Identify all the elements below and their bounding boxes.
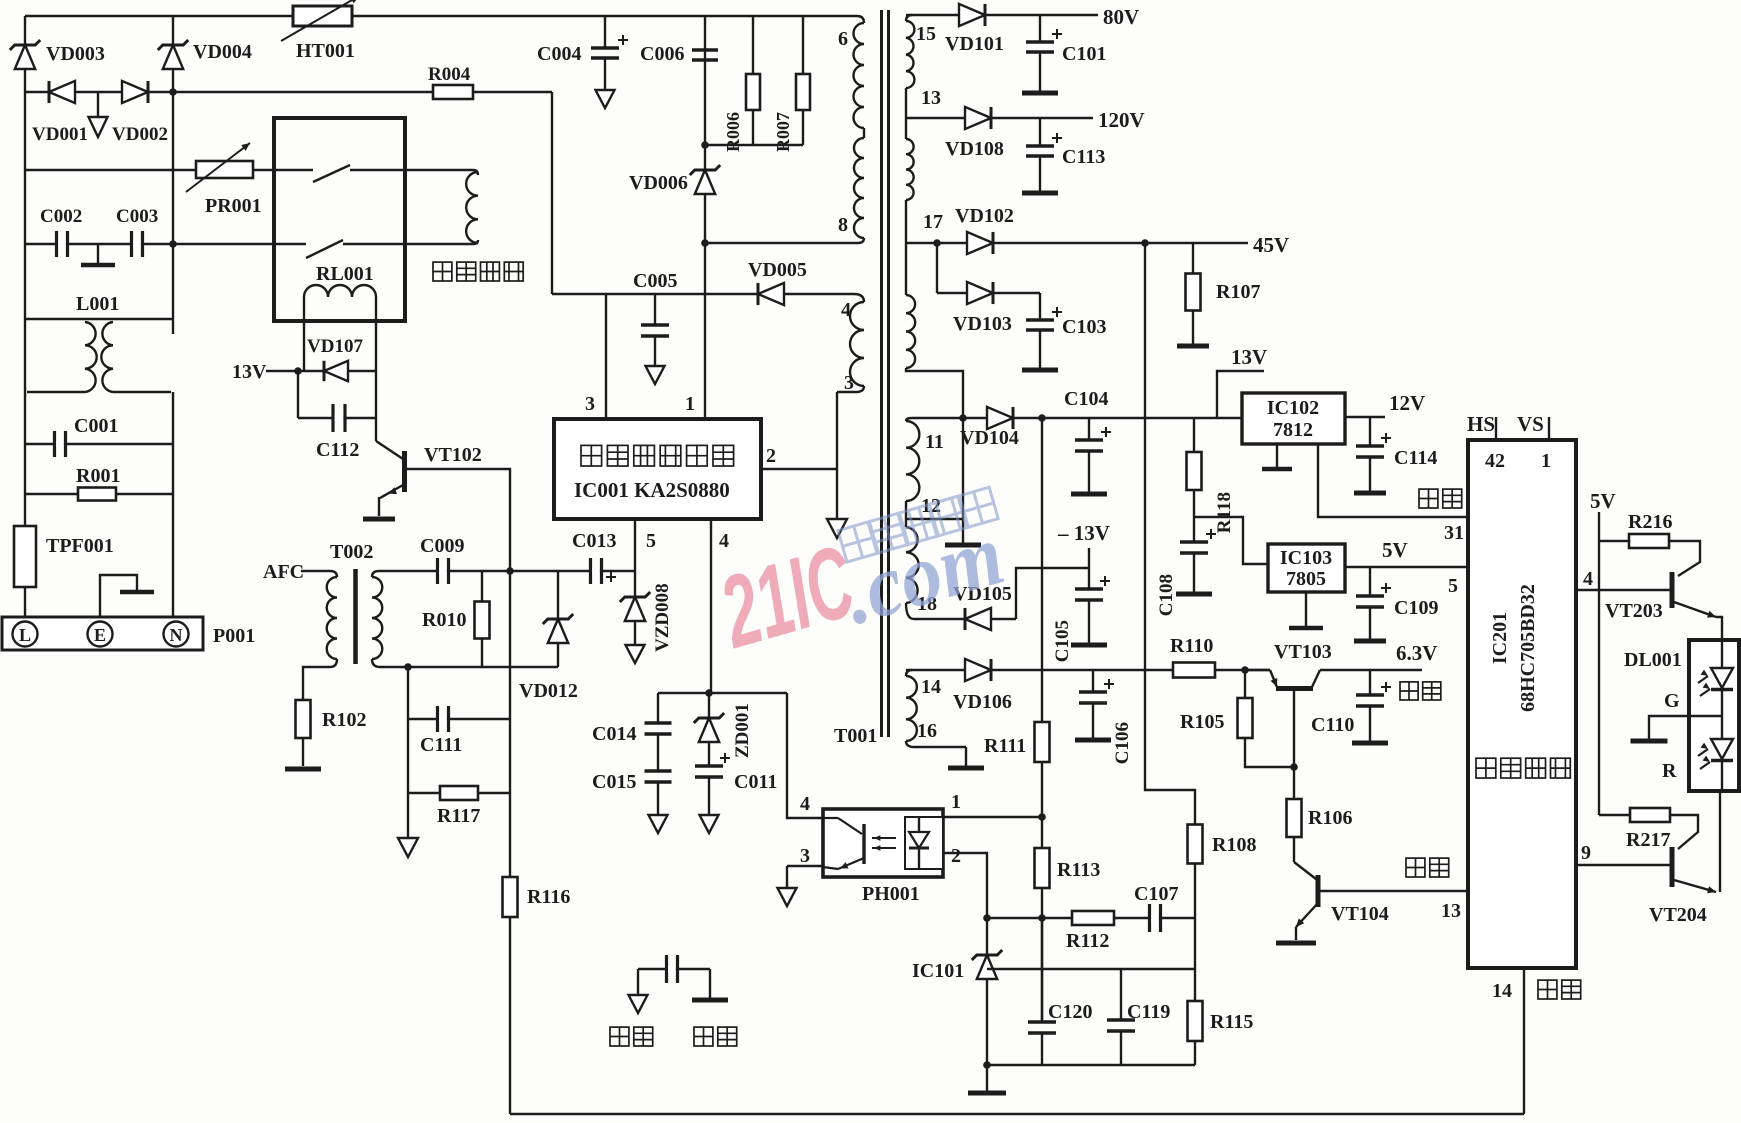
capacitor C014 [592, 693, 672, 745]
capacitor C113 [1022, 118, 1105, 193]
T001 sec 12 tap gnd [906, 418, 981, 545]
svg-text:VD108: VD108 [945, 138, 1004, 160]
pin 4 stub [711, 519, 729, 693]
svg-text:ZD001: ZD001 [732, 703, 753, 758]
svg-text:17: 17 [923, 211, 943, 233]
wire VD103 branch [936, 243, 938, 293]
label filament [1400, 682, 1441, 700]
svg-text:C104: C104 [1064, 388, 1108, 410]
svg-text:VT103: VT103 [1274, 641, 1332, 663]
wire VT102 base [406, 469, 510, 570]
svg-text:12V: 12V [1389, 391, 1425, 415]
wire filament rail [906, 669, 1270, 671]
IC201 pin5 label [1448, 575, 1458, 597]
pin2 wire PH001 [943, 845, 987, 918]
svg-text:VD006: VD006 [629, 172, 688, 194]
wire second rail [172, 16, 174, 319]
wire right rail lower [172, 319, 174, 619]
thermistor HT001 [281, 0, 359, 62]
svg-text:VD005: VD005 [748, 259, 807, 281]
relay RL001 box [274, 118, 405, 321]
svg-text:– 13V: – 13V [1057, 521, 1110, 545]
capacitor C001 [25, 415, 173, 457]
svg-text:R107: R107 [1216, 281, 1260, 303]
T001 primary lower [837, 294, 864, 394]
svg-text:IC102: IC102 [1267, 397, 1319, 419]
zener VD006 [629, 165, 720, 194]
label 5V right [1590, 489, 1616, 513]
svg-text:C113: C113 [1062, 146, 1105, 168]
svg-text:2: 2 [766, 445, 776, 467]
relay switch 2 [274, 240, 473, 258]
svg-text:C011: C011 [734, 771, 777, 793]
capacitor C105 [1052, 548, 1110, 662]
resistor R010 [422, 571, 490, 667]
wire R006 R007 bottom [705, 144, 803, 146]
wire relay to VT102 [375, 371, 377, 441]
capacitor C109 [1354, 567, 1438, 641]
wire feedback rail x1042 [1041, 418, 1043, 1022]
svg-text:C005: C005 [633, 270, 677, 292]
diode VD108 [945, 107, 1004, 160]
junction [701, 239, 709, 247]
svg-text:C111: C111 [420, 734, 462, 756]
capacitor C114 [1354, 417, 1437, 493]
svg-text:7805: 7805 [1286, 568, 1326, 590]
svg-text:R118: R118 [1214, 492, 1235, 533]
IC201 part number [1489, 584, 1539, 712]
T001 sec 13 tap [905, 88, 907, 139]
IC201 pin31 wire [1444, 522, 1464, 544]
svg-text:VD103: VD103 [953, 313, 1012, 335]
svg-text:VS: VS [1517, 412, 1544, 436]
svg-text:C001: C001 [74, 415, 118, 437]
svg-text:L: L [19, 625, 31, 645]
svg-text:R117: R117 [437, 805, 480, 827]
pin3 wire PH001 [778, 845, 824, 906]
relay switch 1 [274, 165, 473, 182]
wire pin2 up to T001 pin3 [836, 392, 838, 469]
capacitor C103 [1022, 293, 1106, 370]
T001 sec 18 out [906, 603, 1016, 619]
wire R004 corner [551, 92, 553, 294]
svg-text:4: 4 [841, 299, 851, 321]
T001 primary upper [705, 16, 864, 243]
watermark [708, 487, 1014, 670]
capacitor C013 [572, 530, 616, 584]
svg-text:3: 3 [800, 845, 810, 867]
wire x408 branch [407, 667, 409, 793]
T001 sec winding 15-13 [906, 15, 941, 109]
svg-text:P001: P001 [213, 625, 255, 647]
label degauss [1538, 980, 1581, 999]
wire 120V rail [906, 108, 1145, 132]
T001 sec 17 tap [906, 200, 943, 295]
wire VD107 left down [297, 371, 299, 418]
wire mains lower [25, 243, 274, 245]
pin 1 stub IC001 [685, 393, 695, 415]
svg-text:45V: 45V [1253, 233, 1289, 257]
wire suspend [1318, 444, 1468, 517]
capacitor C005 [633, 270, 677, 384]
svg-text:VD004: VD004 [193, 41, 252, 63]
IC201 pin14 wire [1492, 968, 1524, 1114]
svg-text:VD001: VD001 [32, 124, 88, 145]
junction [983, 1061, 991, 1069]
IC201 cpu label [1476, 758, 1570, 778]
svg-text:R102: R102 [322, 709, 366, 731]
label 13V bracket [1217, 345, 1267, 418]
svg-text:7812: 7812 [1273, 419, 1313, 441]
resistor R006 [723, 16, 760, 152]
svg-text:9: 9 [1581, 842, 1591, 864]
svg-text:120V: 120V [1098, 108, 1145, 132]
svg-text:1: 1 [951, 791, 961, 813]
ground arrow below bridge [89, 92, 108, 137]
svg-text:C103: C103 [1062, 316, 1106, 338]
transistor VT103 [1245, 641, 1422, 799]
transistor VT204 [1649, 791, 1720, 926]
T001 sec winding 11-12 [906, 418, 963, 517]
resistor R116 [503, 877, 571, 917]
svg-text:TPF001: TPF001 [46, 535, 114, 557]
wire hot line [552, 293, 854, 295]
diode VD103 [937, 282, 1040, 335]
regulator IC103 [1268, 544, 1345, 592]
optocoupler PH001 box [823, 809, 943, 877]
LED R [1662, 739, 1733, 791]
IC103 ground [1289, 592, 1323, 628]
svg-text:R216: R216 [1628, 511, 1672, 533]
diode VD002 [112, 81, 168, 145]
IC201 box [1468, 440, 1576, 968]
wire bottom long [510, 1113, 1524, 1116]
svg-text:80V: 80V [1103, 5, 1139, 29]
svg-text:C013: C013 [572, 530, 616, 552]
svg-text:VD002: VD002 [112, 124, 168, 145]
svg-text:5V: 5V [1590, 489, 1616, 513]
wire fb bottom [987, 1064, 1195, 1066]
capacitor C112 [298, 404, 376, 461]
svg-text:R115: R115 [1210, 1011, 1253, 1033]
capacitor C009 [420, 535, 464, 584]
LED G tap ground [1631, 690, 1723, 741]
svg-text:VD012: VD012 [519, 680, 578, 702]
svg-text:R105: R105 [1180, 711, 1224, 733]
svg-text:PH001: PH001 [862, 883, 920, 905]
label degauss coil [433, 262, 523, 281]
svg-text:R106: R106 [1308, 807, 1352, 829]
fuse TPF001 [14, 526, 114, 587]
svg-text:16: 16 [917, 720, 937, 742]
svg-text:C002: C002 [40, 206, 82, 227]
svg-text:PR001: PR001 [205, 195, 262, 217]
ground arrow x408 [398, 793, 418, 857]
IC001 title [574, 445, 734, 502]
IC201 pin4 wire [1576, 568, 1670, 590]
svg-text:R112: R112 [1066, 930, 1109, 952]
IC201 pin9 wire [1576, 842, 1670, 865]
svg-text:HT001: HT001 [296, 40, 355, 62]
svg-text:3: 3 [844, 372, 854, 394]
IC201 pin1 label [1541, 450, 1551, 472]
junction [1241, 666, 1249, 674]
label 13V [232, 361, 298, 383]
svg-text:8: 8 [838, 214, 848, 236]
resistor R217 [1599, 808, 1698, 851]
svg-text:C119: C119 [1127, 1001, 1170, 1023]
transformer T002 [303, 541, 434, 701]
svg-text:C004: C004 [537, 43, 581, 65]
svg-text:R108: R108 [1212, 834, 1256, 856]
diode VD003 [10, 40, 105, 69]
svg-text:C009: C009 [420, 535, 464, 557]
wire pin4 node [658, 692, 787, 694]
wire 12V out [1345, 391, 1425, 417]
svg-text:R004: R004 [428, 64, 471, 85]
IC201 pin VS [1517, 412, 1549, 440]
shunt reg IC101 [912, 918, 1006, 1093]
svg-text:C106: C106 [1112, 722, 1133, 764]
svg-text:1: 1 [1541, 450, 1551, 472]
svg-text:VT203: VT203 [1605, 600, 1663, 622]
wire bridge rail [25, 91, 552, 93]
diode VD107 [298, 336, 376, 381]
varistor PR001 [25, 143, 274, 217]
svg-text:VT102: VT102 [424, 444, 482, 466]
zener VZD008 [620, 571, 673, 663]
junction [1038, 813, 1046, 821]
svg-text:VT104: VT104 [1331, 903, 1389, 925]
label T001 [834, 725, 877, 747]
regulator IC102 [1242, 393, 1345, 444]
LED G [1664, 640, 1733, 712]
svg-text:31: 31 [1444, 522, 1464, 544]
transistor VT102 [363, 441, 482, 519]
wire C009 rail [434, 570, 635, 572]
T001 sec winding 12-18 [906, 527, 937, 615]
wire R118 to IC103 [1194, 517, 1268, 564]
zener VD012 [519, 571, 578, 702]
svg-text:R010: R010 [422, 609, 466, 631]
svg-text:C105: C105 [1052, 620, 1073, 662]
wire 80V rail [906, 5, 1139, 29]
capacitor C101 [1022, 15, 1106, 93]
transistor VT203 [1605, 572, 1722, 640]
diode VD005 [748, 259, 807, 305]
svg-text:VD102: VD102 [955, 205, 1014, 227]
diode VD104 [960, 407, 1019, 449]
wire 5V out [1345, 538, 1468, 567]
svg-text:R217: R217 [1626, 829, 1670, 851]
svg-text:14: 14 [1492, 980, 1512, 1002]
ground bar between C002 C003 [81, 244, 115, 265]
svg-text:C109: C109 [1394, 597, 1438, 619]
svg-text:3: 3 [585, 393, 595, 415]
wire 5V down [1598, 512, 1600, 815]
wire 45V to R108 [1145, 243, 1195, 824]
IC201 pin13 label [1441, 900, 1461, 922]
ground arrow pin2 [827, 469, 847, 538]
svg-text:C120: C120 [1048, 1001, 1092, 1023]
pin 3 stub IC001 [585, 294, 606, 417]
svg-text:T001: T001 [834, 725, 877, 747]
resistor R118 [1187, 418, 1236, 533]
wire choke top [25, 318, 173, 320]
junction [169, 240, 177, 248]
svg-text:4: 4 [1583, 568, 1593, 590]
junction [959, 414, 967, 422]
svg-text:G: G [1664, 690, 1680, 712]
svg-text:C108: C108 [1156, 574, 1177, 616]
diode VD105 [953, 583, 1012, 630]
svg-text:C110: C110 [1311, 714, 1354, 736]
wire -13V [1016, 521, 1110, 619]
svg-text:C107: C107 [1134, 883, 1178, 905]
svg-text:R110: R110 [1170, 635, 1213, 657]
resistor R111 [984, 722, 1050, 762]
svg-text:4: 4 [800, 793, 810, 815]
svg-text:T002: T002 [330, 541, 373, 563]
capacitor C011 [695, 742, 777, 833]
resistor R216 [1599, 511, 1700, 576]
resistor R102 [285, 700, 366, 769]
pin 5 stub [635, 519, 656, 571]
svg-text:13V: 13V [232, 361, 267, 383]
svg-text:2: 2 [951, 845, 961, 867]
capacitor C003 [116, 206, 158, 257]
svg-text:DL001: DL001 [1624, 649, 1682, 671]
svg-text:E: E [94, 625, 106, 645]
resistor R105 [1180, 670, 1298, 771]
svg-text:C006: C006 [640, 43, 684, 65]
svg-text:5V: 5V [1382, 538, 1408, 562]
resistor R007 [773, 16, 810, 152]
resistor R106 [1287, 799, 1353, 837]
T001 sec 16 out gnd [906, 741, 984, 768]
wire to PH001 pin4 [787, 693, 823, 818]
wire long feedback rail x510 [509, 571, 511, 1114]
inductor L001 [27, 293, 171, 392]
svg-text:R: R [1662, 760, 1677, 782]
svg-text:15: 15 [916, 23, 936, 45]
capacitor C015 [592, 734, 672, 833]
wire 45V rail [906, 233, 1289, 257]
pin 2 wire IC001 [761, 445, 837, 469]
T001 sec bottom link [906, 368, 963, 418]
svg-text:14: 14 [921, 676, 941, 698]
LED display DL001 [1624, 640, 1739, 791]
svg-text:4: 4 [719, 530, 729, 552]
svg-text:1: 1 [685, 393, 695, 415]
pin1 wire PH001 [943, 791, 1042, 817]
svg-text:R001: R001 [76, 465, 120, 487]
relay coil RL001 [304, 263, 376, 371]
svg-text:VT204: VT204 [1649, 904, 1707, 926]
resistor R113 [1035, 848, 1101, 888]
junction [404, 663, 412, 671]
T001 sec winding 14-16 [906, 670, 941, 742]
wire fb low [987, 968, 1195, 970]
resistor R001 [25, 465, 173, 501]
svg-text:5: 5 [646, 530, 656, 552]
svg-text:VD107: VD107 [307, 336, 363, 357]
svg-text:L001: L001 [76, 293, 119, 315]
capacitor C111 [408, 706, 510, 756]
capacitor C106 [1075, 670, 1133, 764]
svg-text:6.3V: 6.3V [1396, 641, 1437, 665]
svg-text:IC201: IC201 [1489, 612, 1511, 664]
junction [1038, 414, 1046, 422]
wire left rail lower [24, 319, 26, 619]
IC102 ground [1262, 444, 1292, 469]
svg-text:AFC: AFC [263, 561, 304, 583]
transistor VT104 [1276, 837, 1468, 943]
capacitor C120 [1028, 918, 1092, 1065]
label close [1406, 858, 1449, 877]
junction [1038, 914, 1046, 922]
svg-text:RL001: RL001 [316, 263, 374, 285]
svg-text:13: 13 [921, 87, 941, 109]
zener ZD001 [694, 693, 753, 758]
transformer T001 core [882, 10, 889, 737]
svg-text:IC103: IC103 [1280, 547, 1332, 569]
junction [705, 689, 713, 697]
svg-text:42: 42 [1485, 450, 1505, 472]
junction [933, 239, 941, 247]
ground earth near E [100, 575, 154, 617]
resistor R004 [428, 64, 473, 99]
svg-text:R113: R113 [1057, 859, 1100, 881]
svg-text:HS: HS [1467, 412, 1495, 436]
degauss coil [466, 170, 478, 244]
IC001 power module box [554, 419, 761, 519]
svg-text:R116: R116 [527, 886, 570, 908]
label hot ground [610, 1027, 653, 1046]
T001 sec winding 13-17 [906, 139, 914, 200]
label suspend [1419, 489, 1462, 508]
svg-text:C101: C101 [1062, 43, 1106, 65]
svg-text:C112: C112 [316, 439, 359, 461]
junction [701, 141, 709, 149]
diode VD102 [955, 205, 1014, 254]
diode VD101 [945, 4, 1004, 55]
svg-text:VZD008: VZD008 [652, 583, 673, 652]
label cold ground [694, 1027, 737, 1046]
resistor R110 [1170, 635, 1215, 678]
resistor R112 [1066, 911, 1114, 952]
capacitor C104 [1071, 418, 1111, 494]
capacitor C002 [40, 206, 82, 257]
junction [169, 88, 177, 96]
hot-cold ground coupling [629, 955, 729, 1013]
resistor R107 [1177, 243, 1260, 346]
svg-text:C015: C015 [592, 771, 636, 793]
wire left rail upper [24, 16, 26, 319]
junction [294, 367, 302, 375]
wire top rail [25, 15, 857, 17]
svg-text:VD106: VD106 [953, 691, 1012, 713]
svg-text:VD003: VD003 [46, 43, 105, 65]
svg-text:68HC705BD32: 68HC705BD32 [1517, 584, 1539, 712]
junction [1141, 239, 1149, 247]
svg-text:VD101: VD101 [945, 33, 1004, 55]
resistor R117 [408, 786, 510, 827]
optocoupler PH001 inner [823, 817, 943, 905]
svg-text:11: 11 [925, 431, 944, 453]
capacitor C107 [1134, 883, 1178, 932]
label 6.3V [1396, 641, 1437, 665]
